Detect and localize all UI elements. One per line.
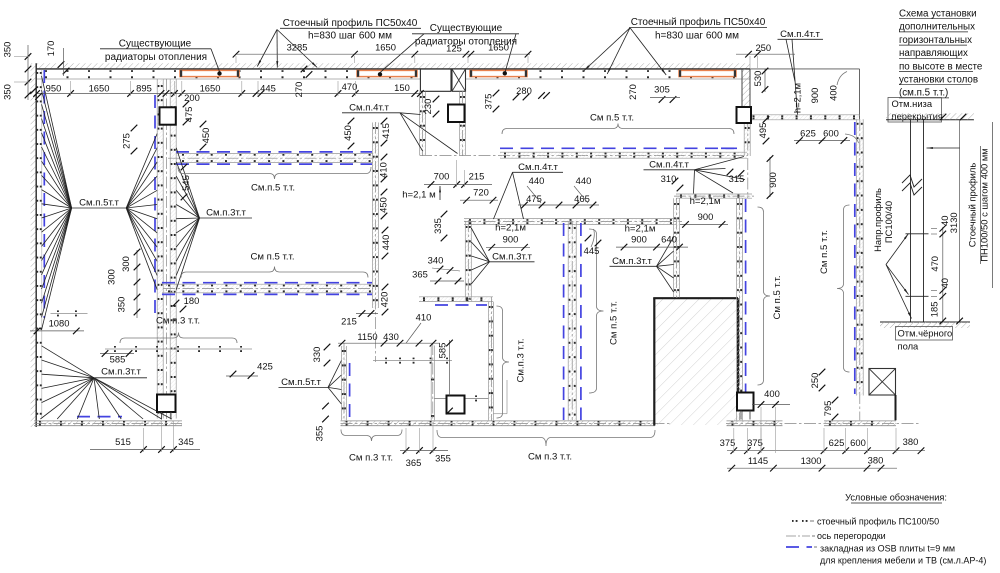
axis of partition x491 bbox=[490, 297, 492, 421]
dim row top bbox=[236, 53, 530, 55]
svg-text:См.п.5т.т: См.п.5т.т bbox=[79, 198, 119, 209]
svg-text:стоечный профиль ПС100/50: стоечный профиль ПС100/50 bbox=[817, 517, 939, 527]
bold hatched room bbox=[654, 298, 738, 425]
brace bottom wall right bbox=[437, 430, 655, 446]
pier below top wall end bbox=[742, 69, 750, 119]
axis of partition x677 bbox=[676, 198, 678, 298]
existing left wall hatch bbox=[31, 63, 37, 427]
svg-text:470: 470 bbox=[342, 81, 358, 92]
svg-text:400: 400 bbox=[828, 85, 839, 101]
column square S6 bbox=[737, 393, 754, 411]
vertical partition x344 bbox=[341, 346, 346, 420]
svg-text:795: 795 bbox=[822, 401, 833, 417]
svg-text:Стоечный профиль ПС50х40: Стоечный профиль ПС50х40 bbox=[631, 16, 766, 28]
top wall niche recess bbox=[419, 69, 421, 91]
svg-text:315: 315 bbox=[729, 173, 745, 184]
horizontal partition band y299 bbox=[419, 297, 493, 302]
horizontal band y221 bbox=[464, 219, 676, 225]
svg-text:270: 270 bbox=[627, 84, 638, 100]
fan Sm.p.3t.t #4 bbox=[657, 237, 674, 266]
svg-text:для крепления мебели и ТВ (см.: для крепления мебели и ТВ (см.л.АР-4) bbox=[820, 556, 986, 566]
ceiling slash ticks bbox=[940, 114, 947, 121]
svg-text:215: 215 bbox=[341, 316, 357, 327]
svg-text:640: 640 bbox=[661, 234, 677, 245]
svg-text:См.п.5т.т: См.п.5т.т bbox=[281, 377, 321, 388]
svg-text:1650: 1650 bbox=[375, 42, 396, 53]
svg-text:Схема установки: Схема установки bbox=[899, 9, 977, 20]
svg-text:185: 185 bbox=[929, 302, 940, 318]
fan Sm.p.4t.t #2 bbox=[494, 172, 513, 219]
svg-text:3130: 3130 bbox=[948, 212, 959, 233]
svg-text:335: 335 bbox=[432, 218, 443, 234]
dim 280 305 ticks bbox=[513, 94, 520, 101]
svg-text:900: 900 bbox=[809, 88, 820, 104]
axis of partition x344 bbox=[343, 343, 345, 420]
top wall inner track line bbox=[36, 78, 420, 80]
long horizontal partition band center bbox=[500, 152, 747, 158]
leader to radiator 3 with dot bbox=[505, 34, 516, 72]
svg-text:h=830 шаг 600 мм: h=830 шаг 600 мм bbox=[655, 31, 739, 42]
ceiling hatch line bbox=[886, 119, 974, 121]
svg-text:600: 600 bbox=[850, 437, 866, 448]
OSB short dashes above bottom wall 1 bbox=[77, 416, 122, 418]
svg-text:950: 950 bbox=[46, 83, 62, 94]
svg-text:h=2,1 м: h=2,1 м bbox=[402, 190, 436, 201]
svg-text:См п.3 т.т.: См п.3 т.т. bbox=[156, 316, 200, 327]
existing top wall hatch bbox=[36, 63, 750, 68]
arc leader 600 bbox=[845, 134, 859, 143]
long vertical partition x572 bbox=[568, 222, 576, 420]
svg-text:380: 380 bbox=[868, 455, 884, 466]
svg-text:См п.5 т.т.: См п.5 т.т. bbox=[772, 275, 783, 319]
svg-text:1145: 1145 bbox=[748, 455, 768, 466]
svg-text:Отм.низа: Отм.низа bbox=[892, 98, 933, 109]
svg-text:585: 585 bbox=[110, 354, 126, 365]
vertical partition x468 bbox=[465, 221, 471, 301]
svg-text:См.п.4т.т: См.п.4т.т bbox=[349, 103, 389, 114]
existing top wall face line bbox=[36, 68, 750, 70]
fan to partition x157 bbox=[126, 134, 157, 209]
svg-text:440: 440 bbox=[529, 175, 545, 186]
svg-text:355: 355 bbox=[435, 453, 451, 464]
svg-text:420: 420 bbox=[379, 292, 390, 308]
dim lines bottom right bbox=[727, 450, 925, 452]
svg-text:375: 375 bbox=[747, 437, 763, 448]
svg-text:h=2,1м: h=2,1м bbox=[690, 196, 721, 207]
svg-text:по высоте в месте: по высоте в месте bbox=[899, 61, 983, 72]
vertical partition x375 bbox=[372, 123, 378, 309]
column square S4 bbox=[157, 395, 176, 413]
svg-text:345: 345 bbox=[178, 436, 194, 447]
svg-text:См.п.3 т.т.: См.п.3 т.т. bbox=[516, 338, 527, 382]
dim extensions row 2 bbox=[70, 81, 72, 96]
axis of partitions along bottom walls bbox=[34, 423, 182, 425]
OSB dashed line partition x740 bbox=[745, 199, 747, 392]
svg-text:установки столов: установки столов bbox=[899, 75, 978, 86]
svg-text:Существующие: Существующие bbox=[430, 23, 503, 34]
break symbol bbox=[902, 175, 922, 187]
svg-text:150: 150 bbox=[394, 82, 410, 93]
svg-text:450: 450 bbox=[342, 125, 353, 141]
svg-text:горизонтальных: горизонтальных bbox=[899, 35, 972, 46]
svg-text:170: 170 bbox=[45, 41, 56, 57]
svg-text:См.п.4т.т: См.п.4т.т bbox=[649, 160, 689, 171]
schematic arrow to profile bbox=[927, 147, 960, 149]
svg-text:270: 270 bbox=[293, 82, 304, 98]
vertical brace x763 bbox=[758, 207, 771, 385]
fan Sm.p.5t.t #4 bbox=[328, 361, 341, 388]
cross-braced block top bbox=[452, 69, 466, 91]
svg-text:Стоечный профиль: Стоечный профиль bbox=[967, 163, 978, 248]
fan to left wall bbox=[42, 76, 72, 208]
vertical brace x597 bbox=[589, 229, 604, 393]
vertical partition x491 bbox=[488, 302, 493, 421]
svg-text:250: 250 bbox=[755, 42, 771, 53]
svg-text:3285: 3285 bbox=[287, 42, 308, 53]
stud row y349 bbox=[105, 348, 252, 350]
fan Sm.p.4t.t #1 bbox=[400, 113, 421, 115]
axis of mid-left band bbox=[163, 288, 373, 290]
svg-text:895: 895 bbox=[136, 83, 152, 94]
axis of partition x468 bbox=[467, 220, 469, 302]
left wall stud profiles bbox=[37, 72, 39, 74]
svg-text:365: 365 bbox=[412, 269, 428, 280]
legend stud symbol bbox=[792, 520, 794, 522]
legend axis symbol bbox=[786, 535, 810, 537]
svg-text:230: 230 bbox=[422, 99, 433, 115]
radiator 4 bbox=[679, 70, 736, 76]
thin partition x433 bbox=[430, 346, 432, 421]
svg-text:355: 355 bbox=[314, 426, 325, 442]
dim ext bottom right bbox=[733, 428, 735, 453]
vertical partition x677 bbox=[674, 198, 680, 297]
vertical partition x740 bbox=[737, 198, 743, 420]
top-right niche edge line bbox=[750, 68, 860, 70]
svg-text:450: 450 bbox=[378, 197, 389, 213]
brace mid-left band bbox=[181, 267, 368, 278]
svg-text:1080: 1080 bbox=[49, 318, 70, 329]
right side partition wall bbox=[856, 119, 863, 395]
fan Sm.p.3t.t #3 bbox=[471, 228, 489, 262]
svg-text:375: 375 bbox=[483, 94, 494, 110]
svg-text:625: 625 bbox=[829, 437, 845, 448]
bold line from block to wall bbox=[895, 395, 897, 420]
fan Napr profil bbox=[886, 234, 909, 265]
schematic dim 40 470 40 185 bbox=[942, 227, 944, 321]
axis center corridor bbox=[420, 154, 748, 156]
svg-text:600: 600 bbox=[823, 128, 839, 139]
brace upper-left band bbox=[178, 167, 371, 179]
svg-text:215: 215 bbox=[469, 171, 485, 182]
vertical brace x503 bbox=[497, 306, 510, 418]
axis of upper-left band bbox=[168, 157, 374, 159]
svg-text:Условные обозначения:: Условные обозначения: bbox=[845, 493, 947, 503]
brace left band y349 bbox=[120, 333, 237, 344]
fan Sm.p.4t.t #3 bbox=[695, 157, 745, 170]
leader arrows to wall from PS50x40 right bbox=[584, 28, 630, 71]
OSB dashed lines partition x572 bbox=[563, 223, 565, 420]
svg-text:330: 330 bbox=[311, 347, 322, 363]
column square S5 bbox=[447, 396, 465, 414]
axis of band y221 bbox=[464, 221, 682, 223]
fan Sm.p.3t.t #2 bbox=[42, 346, 95, 378]
svg-text:900: 900 bbox=[503, 234, 519, 245]
dim row 2 bbox=[37, 93, 421, 95]
OSB short dash below square S2 area bbox=[721, 147, 737, 149]
OSB dashed lines upper-left band bbox=[176, 151, 372, 153]
svg-text:дополнительных: дополнительных bbox=[899, 22, 975, 33]
short stud row near 1080 dim bbox=[51, 312, 88, 314]
svg-text:закладная из OSB плиты t=9 мм: закладная из OSB плиты t=9 мм bbox=[820, 544, 955, 554]
svg-text:40: 40 bbox=[939, 278, 950, 288]
svg-text:415: 415 bbox=[380, 123, 391, 139]
svg-text:440: 440 bbox=[380, 235, 391, 251]
svg-text:720: 720 bbox=[473, 187, 489, 198]
svg-text:470: 470 bbox=[929, 256, 940, 272]
axis pier x748 bbox=[747, 119, 749, 198]
svg-text:Отм.чёрного: Отм.чёрного bbox=[898, 328, 953, 339]
column square S3 bbox=[737, 107, 752, 123]
leader to radiator 1 with dot bbox=[211, 49, 220, 72]
leaders Sm.p.4t.t #4 bbox=[786, 39, 795, 81]
column square S1 bbox=[160, 107, 176, 124]
svg-text:900: 900 bbox=[631, 234, 647, 245]
niche bottom partition band bbox=[749, 115, 860, 120]
short partition band y196 bbox=[676, 194, 752, 198]
svg-text:направляющих: направляющих bbox=[899, 48, 968, 59]
svg-text:350: 350 bbox=[116, 297, 127, 313]
OSB dashed line right wall bbox=[854, 122, 856, 394]
OSB dashed line partition x344 bbox=[349, 363, 351, 420]
svg-text:Напр.профиль: Напр.профиль bbox=[872, 188, 883, 252]
label Otm.niza perekrytiya bbox=[888, 98, 942, 123]
label Otm.chernogo pola bbox=[896, 327, 953, 341]
OSB dashed line left wall bbox=[43, 70, 45, 318]
radiator 3 bbox=[470, 70, 527, 76]
fan Sm.p.3t.t #1 bbox=[176, 148, 199, 218]
svg-text:См.п.5 т.т.: См.п.5 т.т. bbox=[251, 183, 295, 194]
partition axis vertical left double-stud wall bbox=[166, 79, 168, 419]
svg-text:350: 350 bbox=[2, 42, 13, 58]
svg-text:1300: 1300 bbox=[801, 455, 822, 466]
dims 300 300 350 bbox=[136, 250, 138, 318]
svg-text:545: 545 bbox=[180, 175, 191, 191]
OSB dashed line center band bbox=[500, 147, 737, 149]
bottom wall segment 3 bbox=[727, 421, 783, 426]
axis of partition x375 bbox=[374, 122, 376, 362]
axis of partition x740 bbox=[739, 198, 741, 420]
svg-text:ось перегородки: ось перегородки bbox=[817, 531, 886, 541]
bottom wall segment 2 bbox=[341, 421, 656, 426]
OSB dashed lines mid-left band bbox=[162, 282, 372, 284]
wall cut marks bbox=[301, 66, 308, 73]
arc leader 400 bbox=[837, 72, 847, 86]
svg-text:200: 200 bbox=[184, 92, 200, 103]
dim ticks row top bbox=[233, 51, 240, 58]
axis of right side wall bbox=[859, 119, 861, 420]
left wall inner line bbox=[41, 70, 43, 418]
svg-text:1650: 1650 bbox=[89, 83, 110, 94]
brace bottom wall left bbox=[341, 430, 402, 442]
svg-text:250: 250 bbox=[809, 373, 820, 389]
svg-text:495: 495 bbox=[757, 123, 768, 139]
svg-text:См п.3 т.т.: См п.3 т.т. bbox=[528, 452, 572, 463]
column square S2 bbox=[448, 105, 465, 123]
svg-text:180: 180 bbox=[184, 295, 200, 306]
double stud partition column A bbox=[157, 79, 163, 419]
svg-text:375: 375 bbox=[720, 437, 736, 448]
svg-text:См п.5 т.т.: См п.5 т.т. bbox=[250, 252, 294, 263]
svg-text:См.п.3т.т: См.п.3т.т bbox=[206, 208, 246, 219]
vertical brace x844 bbox=[837, 205, 850, 372]
svg-text:См п.3 т.т.: См п.3 т.т. bbox=[349, 453, 393, 464]
dim left 350 350 170 bbox=[27, 45, 29, 100]
svg-text:См п.5 т.т.: См п.5 т.т. bbox=[819, 230, 830, 274]
duct partition left column bbox=[420, 92, 426, 156]
brace center band bbox=[502, 124, 734, 135]
svg-text:625: 625 bbox=[800, 128, 816, 139]
pier stud column below square S3 bbox=[744, 123, 750, 156]
OSB dashed line y305 bbox=[435, 304, 487, 306]
axis of partition x572 bbox=[571, 222, 573, 420]
svg-text:ПС100/40: ПС100/40 bbox=[883, 201, 894, 243]
thin line y360 with studs bbox=[373, 360, 452, 362]
schematic overall dim 3130 bbox=[959, 120, 961, 321]
svg-text:430: 430 bbox=[383, 331, 399, 342]
svg-text:365: 365 bbox=[406, 457, 422, 468]
small return at partition x491 top bbox=[506, 380, 508, 414]
svg-text:См.п.4т.т: См.п.4т.т bbox=[518, 162, 558, 173]
svg-text:445: 445 bbox=[260, 83, 276, 94]
svg-text:900: 900 bbox=[767, 172, 778, 188]
axis of duct partitions bbox=[422, 91, 424, 156]
svg-text:Существующие: Существующие bbox=[119, 39, 192, 50]
svg-text:См.п.3т.т: См.п.3т.т bbox=[101, 367, 141, 378]
svg-text:h=2,1м: h=2,1м bbox=[495, 223, 526, 234]
svg-text:440: 440 bbox=[576, 175, 592, 186]
svg-text:585: 585 bbox=[437, 343, 448, 359]
bottom wall segment 4 bbox=[824, 421, 896, 426]
svg-text:радиаторы отопления: радиаторы отопления bbox=[105, 52, 207, 63]
svg-text:1150: 1150 bbox=[357, 331, 377, 342]
svg-text:См п.5 т.т.: См п.5 т.т. bbox=[590, 113, 634, 124]
svg-text:ПН100/50 с шагом 400 мм: ПН100/50 с шагом 400 мм bbox=[979, 148, 990, 261]
svg-text:1650: 1650 bbox=[488, 42, 509, 53]
schematic profile column bbox=[910, 120, 912, 322]
axis of partition x433 bbox=[432, 343, 434, 420]
svg-text:1650: 1650 bbox=[200, 83, 221, 94]
svg-text:300: 300 bbox=[120, 256, 131, 272]
OSB dashed line partition x155 bbox=[154, 95, 156, 320]
legend OSB symbol bbox=[786, 546, 812, 548]
svg-text:125: 125 bbox=[446, 43, 462, 54]
svg-text:530: 530 bbox=[752, 71, 763, 87]
horizontal partition band mid-left bbox=[162, 284, 372, 293]
svg-text:305: 305 bbox=[654, 84, 670, 95]
svg-text:400: 400 bbox=[764, 388, 780, 399]
axis of band y196 bbox=[674, 195, 754, 197]
radiator 1 bbox=[180, 70, 239, 76]
svg-text:425: 425 bbox=[257, 361, 273, 372]
svg-text:350: 350 bbox=[2, 84, 13, 100]
svg-text:См п.5 т.т.: См п.5 т.т. bbox=[609, 301, 620, 345]
dim extensions row top bbox=[235, 56, 237, 63]
top wall stud profiles bbox=[45, 70, 47, 72]
svg-text:h=830 шаг 600 мм: h=830 шаг 600 мм bbox=[308, 31, 392, 42]
floor hatch line bbox=[880, 321, 970, 323]
svg-text:450: 450 bbox=[200, 128, 211, 144]
svg-text:340: 340 bbox=[428, 255, 444, 266]
svg-text:300: 300 bbox=[106, 269, 117, 285]
svg-text:См.п.3т.т: См.п.3т.т bbox=[612, 256, 652, 267]
cross-braced block bottom right bbox=[869, 369, 896, 396]
svg-text:900: 900 bbox=[698, 211, 714, 222]
svg-text:См.п.3т.т: См.п.3т.т bbox=[492, 252, 532, 263]
svg-text:275: 275 bbox=[121, 133, 132, 149]
svg-text:700: 700 bbox=[434, 171, 450, 182]
double stud partition column B bbox=[170, 79, 176, 419]
svg-text:380: 380 bbox=[903, 436, 919, 447]
svg-text:h=2,1м: h=2,1м bbox=[792, 83, 803, 113]
leader arrows to wall from PS50x40 left bbox=[257, 30, 277, 67]
svg-text:515: 515 bbox=[115, 436, 131, 447]
horizontal partition band upper-left bbox=[176, 154, 373, 163]
left wall face line bbox=[35, 63, 37, 427]
profile crossbars bbox=[906, 233, 929, 235]
svg-text:пола: пола bbox=[898, 341, 920, 352]
bottom wall segment 1 bbox=[34, 421, 182, 426]
dim ticks row 2 bbox=[33, 90, 40, 97]
radiator 2 bbox=[357, 70, 417, 76]
svg-text:См.п.4т.т: См.п.4т.т bbox=[780, 29, 820, 40]
svg-text:Стоечный профиль ПС50х40: Стоечный профиль ПС50х40 bbox=[283, 17, 418, 29]
line y398 through square S5 bbox=[434, 397, 488, 399]
leader to radiator 2 with dot bbox=[380, 34, 424, 73]
svg-text:410: 410 bbox=[416, 312, 432, 323]
duct partition right column bbox=[460, 92, 466, 156]
